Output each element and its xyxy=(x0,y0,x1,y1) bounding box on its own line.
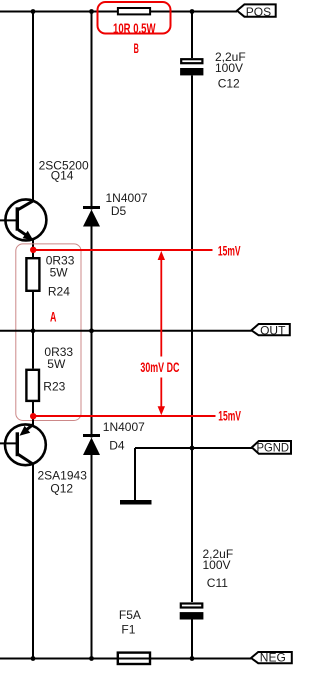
wire Q14 emitter to R24 xyxy=(32,239,34,257)
wire vertical x192 C12 to C11 xyxy=(191,76,193,603)
wire bottom rail NEG xyxy=(0,658,251,660)
svg-text:1N4007: 1N4007 xyxy=(103,420,145,434)
svg-text:30mV DC: 30mV DC xyxy=(140,359,179,375)
node red dot upper 15mV xyxy=(30,247,36,253)
svg-text:100V: 100V xyxy=(203,558,231,572)
svg-text:5W: 5W xyxy=(50,265,69,279)
OUT flag xyxy=(251,323,289,337)
svg-text:10R 0.5W: 10R 0.5W xyxy=(113,20,156,36)
node junction out x91 xyxy=(89,328,94,333)
svg-text:OUT: OUT xyxy=(260,323,286,337)
svg-text:B: B xyxy=(134,40,139,56)
red measure arrow 30mV xyxy=(158,251,165,415)
svg-text:POS: POS xyxy=(246,5,271,19)
svg-text:C12: C12 xyxy=(218,76,240,90)
svg-text:F5A: F5A xyxy=(119,608,141,622)
wire vertical x33 top to Q14 collector xyxy=(32,12,34,202)
node junction pgnd x192 xyxy=(190,446,195,451)
transistor Q12 2SA1943 (PNP) xyxy=(0,424,87,495)
svg-text:D4: D4 xyxy=(109,438,125,452)
svg-text:NEG: NEG xyxy=(260,651,286,665)
wire Q12 collector to bottom rail xyxy=(32,463,34,659)
node junction out x33 xyxy=(31,328,36,333)
NEG flag xyxy=(251,651,292,665)
red measure line lower xyxy=(33,415,216,417)
diode D4 1N4007 xyxy=(83,331,145,659)
diode D5 1N4007 xyxy=(83,12,148,332)
red measure line upper xyxy=(33,249,213,251)
wire R23 to Q12 emitter xyxy=(32,402,34,425)
svg-text:C11: C11 xyxy=(207,576,228,590)
svg-text:Q12: Q12 xyxy=(50,481,73,495)
svg-text:F1: F1 xyxy=(121,622,135,636)
fuse F1 xyxy=(118,608,150,664)
svg-text:D5: D5 xyxy=(111,204,127,218)
wire PGND rail xyxy=(135,447,252,449)
node junction top x33 xyxy=(31,9,36,14)
svg-text:15mV: 15mV xyxy=(218,242,241,258)
resistor R23 xyxy=(26,331,73,401)
transistor Q14 2SC5200 (NPN) xyxy=(0,158,89,240)
node junction top x91 xyxy=(89,9,94,14)
ground symbol xyxy=(120,500,152,505)
node junction bottom x91 xyxy=(89,656,94,661)
wire R24 to OUT rail xyxy=(32,292,34,331)
red box B around 10R resistor xyxy=(98,2,171,34)
capacitor C11 xyxy=(180,547,233,658)
svg-text:PGND: PGND xyxy=(257,441,290,455)
node junction bottom x33 xyxy=(31,656,36,661)
wire top rail POS xyxy=(0,11,237,13)
wire OUT rail xyxy=(0,330,252,332)
svg-text:15mV: 15mV xyxy=(218,407,241,423)
node junction top x192 xyxy=(190,9,195,14)
svg-text:Q14: Q14 xyxy=(51,169,74,183)
svg-text:1N4007: 1N4007 xyxy=(106,191,148,205)
resistor R(10R) body xyxy=(118,8,150,14)
svg-text:R24: R24 xyxy=(48,285,70,299)
red box A around R24/R23 xyxy=(16,244,81,421)
svg-text:2SA1943: 2SA1943 xyxy=(38,468,88,482)
PGND flag xyxy=(252,441,291,455)
wire PGND drop to ground xyxy=(134,448,136,500)
svg-text:R23: R23 xyxy=(43,379,65,393)
POS flag xyxy=(237,4,276,19)
node red dot lower 15mV xyxy=(30,413,36,419)
svg-text:A: A xyxy=(50,308,56,324)
capacitor C12 xyxy=(180,12,246,91)
node junction bottom x192 xyxy=(190,656,195,661)
svg-text:100V: 100V xyxy=(215,61,243,75)
resistor R24 xyxy=(26,254,74,299)
svg-text:5W: 5W xyxy=(47,357,66,371)
